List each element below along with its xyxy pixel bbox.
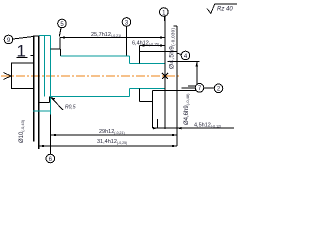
dia dim right ext bottom bbox=[153, 90, 200, 92]
svg-text:Ø4,6h9(-0,48): Ø4,6h9(-0,48) bbox=[184, 93, 190, 125]
neck top teal bbox=[130, 62, 165, 64]
left center arrow bbox=[4, 73, 12, 80]
flange bottom cap teal bbox=[33, 110, 51, 112]
flange right vertical bbox=[38, 36, 40, 149]
balloon 2 bbox=[214, 84, 223, 93]
dim 6.4 arrows bbox=[139, 44, 165, 46]
step bottom face bbox=[48, 96, 50, 102]
balloon 7 bbox=[195, 84, 204, 93]
svg-text:Ø4,5h9(-0,030): Ø4,5h9(-0,030) bbox=[169, 28, 176, 69]
stock top bbox=[139, 50, 177, 52]
dim 6.4 line bbox=[139, 45, 165, 47]
svg-text:R0,5: R0,5 bbox=[65, 105, 76, 111]
dim 4.5 ext bbox=[152, 91, 154, 129]
balloon 3 leader bbox=[126, 27, 128, 56]
balloon digits bbox=[7, 10, 221, 163]
groove teal left vertical bbox=[44, 36, 46, 97]
dim 4.5 ext2 bbox=[156, 119, 158, 128]
dim 31.4 line bbox=[39, 145, 177, 147]
balloon 2 leader bbox=[204, 87, 214, 89]
clamp tick bbox=[31, 55, 34, 57]
balloon 1 bbox=[160, 8, 169, 17]
dim 4.5 arrows bbox=[153, 127, 182, 129]
neck bottom teal bbox=[130, 88, 165, 90]
balloon 9 leader bbox=[13, 37, 33, 40]
dia dim arrows bbox=[196, 61, 198, 90]
end face / extension bbox=[164, 16, 166, 129]
step top black bbox=[51, 48, 61, 50]
balloon 6 leader bbox=[50, 115, 52, 154]
dim 25.7 arrows bbox=[60, 36, 165, 38]
right extension line bbox=[176, 26, 178, 146]
balloon 4 leader bbox=[177, 53, 181, 54]
balloon 3 bbox=[122, 18, 131, 27]
shaft top teal bbox=[60, 55, 129, 57]
dim 31.4 arrows bbox=[39, 145, 177, 147]
balloon 4 bbox=[181, 51, 190, 60]
step bottom black bbox=[39, 102, 50, 104]
balloon 7 leader bbox=[182, 87, 196, 89]
shaft bottom teal bbox=[49, 95, 129, 97]
dim 29 line bbox=[51, 134, 177, 136]
stock left bottom vertical bbox=[138, 89, 140, 102]
dia dim right ext top bbox=[168, 60, 200, 62]
center support cross bbox=[162, 73, 168, 79]
hub rect bbox=[12, 63, 34, 89]
dim 29 ext bbox=[50, 115, 52, 155]
dia dim right vertical bbox=[196, 61, 198, 90]
dim 4.5 shelf bbox=[177, 127, 234, 129]
balloon 9 bbox=[4, 35, 13, 44]
balloon 1 leader bbox=[164, 16, 167, 26]
balloon 6 bbox=[46, 154, 55, 163]
stock left top vertical bbox=[138, 46, 140, 64]
shoulder teal top bbox=[129, 56, 131, 63]
shoulder teal bottom bbox=[129, 89, 131, 97]
groove teal right vertical bbox=[50, 36, 52, 115]
dim 29 arrows bbox=[51, 134, 177, 136]
dim 25.7 line bbox=[60, 37, 165, 39]
centerline bbox=[1, 75, 180, 77]
balloon 5 leader bbox=[59, 28, 61, 37]
R0.5 leader bbox=[51, 97, 63, 110]
dim 25.7 left ext bbox=[59, 38, 61, 50]
roughness symbol bbox=[207, 4, 237, 14]
flange left vertical bbox=[33, 36, 35, 142]
groove teal top bbox=[39, 35, 51, 37]
svg-text:Rz 40: Rz 40 bbox=[217, 7, 233, 13]
right extension top tick bbox=[174, 25, 178, 27]
balloon 5 bbox=[58, 19, 67, 28]
dim 4.5 line left part bbox=[153, 127, 177, 129]
stock bottom bbox=[139, 101, 153, 103]
flange top cap bbox=[33, 35, 39, 37]
svg-text:Ø10(-0,43): Ø10(-0,43) bbox=[19, 119, 25, 143]
step top face bbox=[59, 49, 61, 56]
